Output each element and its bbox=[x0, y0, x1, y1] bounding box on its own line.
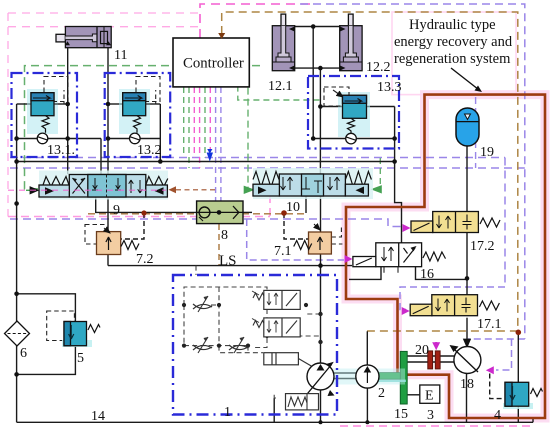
pilot valve 1e bbox=[252, 318, 300, 337]
svg-text:LS: LS bbox=[219, 253, 237, 269]
throttle 1a bbox=[193, 296, 212, 312]
wire: purple dashed long horizontal y219 to valve 17.2 pilot bbox=[10, 219, 406, 227]
regulator 1g bbox=[286, 394, 319, 410]
wire: accumulator to valve 17.2 bbox=[466, 146, 468, 212]
wire: regulator drop to tank bbox=[273, 398, 275, 422]
svg-text:17.1: 17.1 bbox=[477, 317, 502, 332]
wire: valve 10 bottom port bbox=[305, 196, 307, 213]
svg-text:10: 10 bbox=[286, 200, 300, 215]
valve 13.1 group bbox=[12, 73, 78, 157]
wire: pink dashed line 2 bbox=[8, 26, 201, 28]
wire: tank line 14 bbox=[17, 421, 533, 423]
controller box bbox=[173, 38, 249, 87]
pump 2 bbox=[356, 365, 379, 388]
wire: green dashed drop x205 bbox=[204, 87, 206, 158]
wire: supply to valve 16 bbox=[395, 162, 402, 244]
wire: pump 2 up to LS dashed bbox=[366, 331, 368, 365]
svg-text:17.2: 17.2 bbox=[470, 239, 495, 254]
wire: brown dashed LS line y213 bbox=[88, 213, 306, 215]
svg-text:11: 11 bbox=[114, 48, 127, 63]
relief valve 7.2 bbox=[85, 225, 139, 255]
electric box 3 bbox=[420, 385, 440, 404]
brown arrow into controller bbox=[218, 26, 225, 39]
svg-text:4: 4 bbox=[494, 408, 501, 423]
wire: cylinder 11 left port down to valve 9 bbox=[67, 48, 69, 174]
wire: coupling lines 15 to 20 to 18 bbox=[407, 356, 454, 362]
wire: purple dashed LS box segment bbox=[247, 219, 344, 260]
wire: green dashed drop x189 bbox=[188, 87, 190, 168]
svg-text:5: 5 bbox=[77, 351, 84, 366]
wire: purple dashed outer box top/right bbox=[300, 4, 525, 339]
wire: pump 2 to tank bbox=[366, 388, 368, 422]
wire: pink dashed box left edge bbox=[7, 13, 9, 217]
svg-text:Hydraulic type: Hydraulic type bbox=[409, 17, 496, 33]
wire: green dashed branch to valve 13.3 pilot bbox=[238, 66, 322, 100]
relief valve 4 bbox=[503, 382, 543, 409]
svg-text:12.1: 12.1 bbox=[268, 79, 293, 94]
wire: pink dashed box bottom bbox=[8, 216, 270, 218]
wire: LS horizontal line bbox=[108, 265, 352, 267]
recovery system brown border bbox=[346, 95, 545, 418]
cyan highlight behind shaft bbox=[333, 369, 405, 385]
cylinder 12.2 bbox=[340, 14, 362, 71]
relief valve 5 bbox=[47, 311, 100, 347]
pink halo along brown recovery-system border bbox=[346, 95, 545, 418]
wire: valve 9 bottom port to shuttle 8 bbox=[96, 197, 197, 212]
wire: relief 5 branch bottom bbox=[17, 346, 76, 375]
svg-text:18: 18 bbox=[460, 377, 474, 392]
svg-text:E: E bbox=[425, 389, 434, 404]
servo cylinder 1f bbox=[264, 353, 313, 367]
wire: main supply horizontal y161.5 bbox=[17, 161, 395, 163]
wire: drop x313 to 13.3 bbox=[312, 27, 314, 139]
cylinder 11 bbox=[56, 27, 111, 48]
wire: check line 13.1 bbox=[17, 138, 101, 140]
svg-text:20: 20 bbox=[415, 343, 429, 358]
svg-text:3: 3 bbox=[427, 408, 434, 423]
solenoid valve 17.2 bbox=[411, 212, 500, 233]
coupling capacitor 20 bbox=[428, 351, 440, 369]
wire: cylinder 12 bottom line bbox=[295, 67, 340, 69]
wire: black dashed pilot from LS dot to 7.1 bbox=[284, 213, 308, 239]
pump/motor 18 bbox=[450, 345, 481, 374]
wire: purple dashed corner to pump18 arrow bbox=[468, 339, 525, 370]
wire: valve 16 right port to junction bbox=[416, 267, 468, 280]
wire: purple dashed horizontal y287 to valve 17.1 pilot bbox=[400, 287, 505, 310]
wire: brown dashed outer box (controller to recovery) bbox=[222, 12, 518, 331]
annotation arrow to recovery box bbox=[451, 68, 479, 90]
green shaft pump2 to 15 bbox=[378, 373, 400, 380]
main pump 1 circle bbox=[303, 362, 335, 399]
wire: pink dashed box right edge bbox=[269, 195, 271, 217]
wire: purple dashed long horizontal y168 bbox=[10, 167, 525, 169]
solenoid valve 17.1 bbox=[410, 295, 499, 316]
generator bar 15 bbox=[400, 351, 407, 404]
wire: valve 17.2 to 17.1 bbox=[466, 233, 468, 295]
svg-text:13.2: 13.2 bbox=[137, 143, 162, 158]
filter 6 bbox=[5, 321, 30, 346]
wire: cylinder 12 top line bbox=[295, 26, 340, 28]
throttle 1c bbox=[229, 337, 248, 353]
wire: line 15 to E box bbox=[407, 394, 419, 396]
wire: box 4 supply drop bbox=[517, 332, 519, 382]
pump group box 1 bbox=[173, 266, 337, 415]
svg-text:7.1: 7.1 bbox=[274, 244, 292, 259]
wire: black dashed pilot box 4 bbox=[490, 374, 505, 399]
magenta pilot arrows bbox=[345, 224, 494, 374]
throttle 1b bbox=[193, 337, 212, 353]
wire: green dashed drop to valve 10 right pilot bbox=[372, 158, 380, 189]
wire: relief 5 branch top bbox=[17, 294, 76, 322]
valve 16 bbox=[353, 243, 446, 273]
wire: vertical x160 to supply line bbox=[159, 104, 161, 162]
svg-text:16: 16 bbox=[420, 267, 434, 282]
accumulator 19 bbox=[456, 108, 479, 146]
wire: box 4 to tank line bbox=[517, 406, 519, 422]
wire: magenta dashed drop x210 with blue marker bbox=[209, 87, 211, 152]
svg-text:6: 6 bbox=[20, 346, 27, 361]
wire: black dashed pilot from LS dot to 7.2 bbox=[121, 213, 144, 239]
svg-text:2: 2 bbox=[378, 386, 385, 401]
wire: magenta dashed drop x199 bbox=[199, 87, 201, 168]
wire: magenta dashed pilot line through valve 9 bbox=[8, 189, 166, 191]
svg-text:12.2: 12.2 bbox=[366, 60, 391, 75]
wire: check line 13.2 bbox=[108, 138, 160, 140]
wire: purple dashed drop x215.6 bbox=[215, 87, 217, 219]
valve 10 bbox=[253, 168, 373, 199]
wire: purple dashed drop x220.9 bbox=[220, 87, 222, 219]
blue flow marker on supply line bbox=[207, 153, 213, 162]
wire: cylinder 11 right port down to valve 9 bbox=[107, 48, 109, 174]
svg-text:7.2: 7.2 bbox=[136, 252, 154, 267]
wire: valve 9 bottom through 7.2 to LS line bbox=[107, 197, 109, 266]
wire: 13.3 pilot port line bbox=[320, 106, 342, 108]
svg-text:regeneration system: regeneration system bbox=[394, 51, 511, 67]
svg-text:1: 1 bbox=[224, 405, 231, 420]
pink highlight box around caption bbox=[392, 12, 516, 95]
wire: pink dashed top line 1 bbox=[8, 12, 200, 14]
wire: magenta dashed drop x194 bbox=[193, 87, 195, 158]
valve 9 bbox=[26, 171, 215, 200]
wire: pump 1 down to tank bbox=[320, 390, 322, 422]
wire: left main vertical bbox=[16, 104, 18, 422]
shuttle valve 8 bbox=[197, 201, 243, 224]
svg-text:14: 14 bbox=[91, 409, 105, 424]
wire: valve 10 bottom through 7.1 down to pump 1 bbox=[320, 196, 322, 363]
svg-text:19: 19 bbox=[480, 145, 494, 160]
wire: box 8 right port bbox=[243, 211, 252, 213]
wire: purple dashed vertical x475 bbox=[475, 97, 477, 168]
wire: valve 16 left port stub bbox=[349, 267, 381, 280]
svg-text:Controller: Controller bbox=[183, 56, 244, 72]
cylinder 12.1 bbox=[272, 14, 294, 71]
wire: pump1-pump2 shaft bbox=[334, 373, 356, 379]
wire: pump 18 to tank line bbox=[466, 373, 468, 422]
svg-text:13.3: 13.3 bbox=[377, 80, 402, 95]
relief valve 7.1 bbox=[294, 224, 343, 254]
wire: green dashed box around left valve group bbox=[25, 66, 261, 189]
wire: purple dashed long horizontal y158 bbox=[10, 157, 505, 159]
wire: green dashed drop x183.7 bbox=[183, 87, 185, 157]
svg-text:15: 15 bbox=[394, 407, 408, 422]
svg-text:energy recovery and: energy recovery and bbox=[394, 34, 513, 50]
wire: 13.3 right drop bbox=[394, 139, 396, 162]
svg-text:9: 9 bbox=[113, 203, 120, 218]
svg-text:8: 8 bbox=[221, 228, 228, 243]
wire: drop x320.4 to valve 10 bbox=[319, 68, 321, 174]
wire: magenta dashed top bbox=[200, 4, 310, 38]
valve 13.2 group bbox=[105, 73, 171, 157]
dark red junction dots bbox=[141, 210, 521, 335]
wire: valve 17.1 to pump 18 bbox=[466, 318, 468, 347]
wire: 13.3 check line bbox=[313, 138, 394, 140]
svg-text:13.1.: 13.1. bbox=[47, 143, 75, 158]
wire: purple dashed vertical x505 bbox=[504, 158, 506, 288]
valve 13.3 group bbox=[308, 76, 399, 149]
wire: brown dashed LS drop from box 8 bbox=[218, 224, 220, 266]
wire: magenta dashed bottom right bbox=[340, 425, 530, 427]
pilot valve 1d bbox=[252, 290, 300, 309]
wire: brown corner stub to tank bbox=[532, 418, 534, 422]
wire: green dashed drop to valve 10 left pilot bbox=[248, 66, 254, 190]
